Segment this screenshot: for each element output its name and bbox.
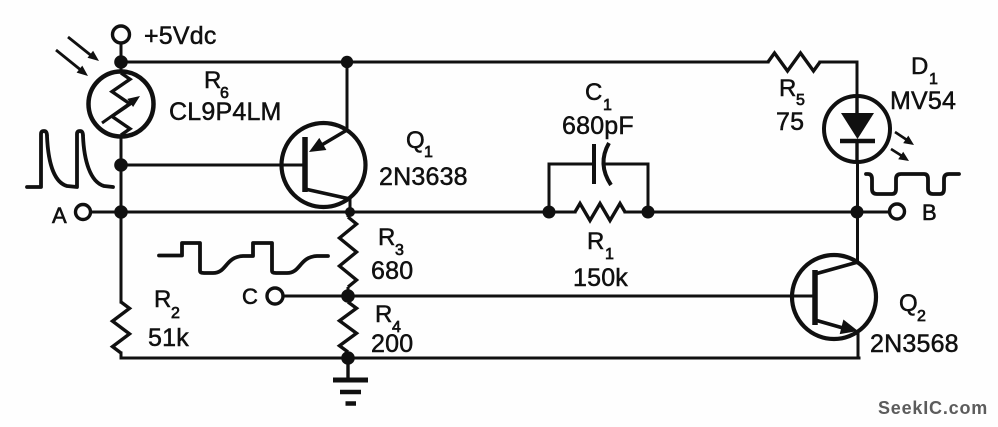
svg-text:2: 2 — [171, 305, 180, 322]
svg-text:1: 1 — [929, 71, 938, 88]
svg-text:R: R — [587, 228, 604, 255]
svg-text:1: 1 — [424, 144, 433, 161]
svg-text:+5Vdc: +5Vdc — [144, 22, 217, 50]
svg-text:200: 200 — [371, 330, 413, 358]
svg-text:2N3568: 2N3568 — [870, 330, 959, 358]
svg-text:MV54: MV54 — [890, 87, 956, 115]
svg-text:75: 75 — [776, 108, 804, 136]
svg-text:B: B — [922, 200, 937, 225]
svg-text:R: R — [375, 301, 392, 328]
svg-text:R: R — [378, 224, 395, 251]
svg-text:R: R — [204, 67, 221, 94]
svg-text:51k: 51k — [148, 324, 189, 352]
svg-text:R: R — [779, 75, 796, 102]
svg-text:680pF: 680pF — [562, 112, 634, 140]
svg-text:2: 2 — [917, 308, 926, 325]
svg-text:D: D — [911, 53, 928, 80]
svg-text:Q: Q — [406, 127, 425, 154]
svg-text:2N3638: 2N3638 — [379, 163, 468, 191]
svg-text:5: 5 — [796, 92, 805, 109]
svg-text:680: 680 — [371, 257, 413, 285]
svg-text:A: A — [52, 203, 67, 228]
svg-text:R: R — [154, 286, 171, 313]
svg-text:Q: Q — [899, 290, 918, 317]
svg-text:C: C — [242, 284, 258, 309]
svg-text:1: 1 — [605, 246, 614, 263]
svg-text:CL9P4LM: CL9P4LM — [169, 98, 282, 126]
svg-text:SeekIC.com: SeekIC.com — [878, 398, 988, 418]
svg-text:C: C — [585, 79, 602, 106]
svg-text:150k: 150k — [573, 264, 628, 292]
